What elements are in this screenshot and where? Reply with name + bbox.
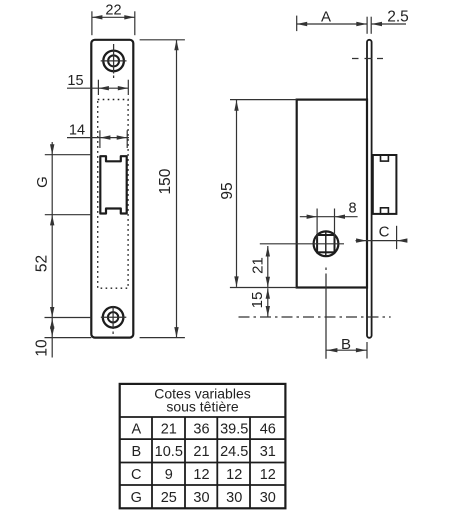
- svg-text:A: A: [131, 421, 141, 437]
- svg-text:B: B: [131, 444, 141, 460]
- latch bolt side view: [373, 155, 397, 214]
- table row G: [131, 490, 276, 506]
- svg-text:30: 30: [226, 490, 242, 506]
- top screw centerline vertical: [113, 44, 115, 78]
- bottom screw centerline vertical: [112, 306, 114, 334]
- hidden lock case dotted outline: [98, 100, 128, 289]
- dimension 95: [236, 100, 238, 287]
- svg-text:150: 150: [157, 168, 174, 194]
- lock case side view: [297, 100, 367, 288]
- svg-text:36: 36: [193, 421, 209, 437]
- svg-text:B: B: [341, 336, 351, 353]
- svg-text:G: G: [34, 176, 51, 188]
- svg-text:30: 30: [193, 490, 209, 506]
- bottom screw centerline horizontal: [101, 316, 127, 318]
- table row A: [131, 421, 275, 437]
- svg-text:12: 12: [193, 467, 209, 483]
- cylinder axis dash-dot: [239, 316, 391, 318]
- svg-text:2.5: 2.5: [387, 8, 409, 25]
- top screw hole outer: [103, 51, 124, 72]
- top screw hole inner: [108, 55, 119, 66]
- svg-text:25: 25: [161, 490, 177, 506]
- dimension C: [356, 226, 406, 249]
- svg-text:52: 52: [34, 255, 51, 272]
- bottom screw extension line: [45, 317, 92, 319]
- svg-text:22: 22: [105, 2, 121, 18]
- dimension 14: [67, 130, 129, 148]
- svg-text:8: 8: [348, 201, 356, 217]
- spindle vertical centerline below: [325, 268, 327, 359]
- case top extension line: [230, 99, 297, 101]
- svg-text:sous têtière: sous têtière: [166, 399, 239, 415]
- spindle square cross vertical: [325, 231, 327, 257]
- svg-text:10.5: 10.5: [155, 444, 183, 460]
- bottom screw hole outer: [103, 307, 124, 328]
- left dimension chain line G/52/10: [51, 142, 53, 358]
- dimension B: [326, 342, 367, 359]
- svg-text:24.5: 24.5: [220, 444, 248, 460]
- dimension 15 left view: [67, 80, 128, 95]
- G arrows (outside): [50, 144, 54, 155]
- spindle hole circle: [314, 231, 339, 256]
- 10 arrows: [50, 318, 54, 329]
- bottom screw hole inner: [108, 312, 118, 322]
- latch tab top: [381, 155, 389, 161]
- svg-text:12: 12: [260, 467, 276, 483]
- table vertical lines: [152, 417, 250, 508]
- svg-text:14: 14: [69, 123, 85, 139]
- dimension 21: [267, 246, 269, 287]
- dimension 150: [140, 40, 185, 338]
- svg-text:46: 46: [260, 421, 276, 437]
- svg-text:15: 15: [67, 73, 83, 89]
- table row C: [131, 467, 276, 483]
- dimension 8: [300, 209, 358, 239]
- dimension 15 right view: [267, 288, 269, 316]
- spindle square: [317, 235, 334, 252]
- dimension A: [297, 16, 406, 34]
- svg-text:A: A: [321, 8, 331, 25]
- G extension lines: [45, 155, 92, 215]
- top screw axis dash-dot: [352, 58, 383, 60]
- spindle horizontal centerline: [260, 243, 344, 245]
- svg-text:C: C: [379, 224, 390, 241]
- svg-text:12: 12: [226, 467, 242, 483]
- latch cutout: [100, 156, 126, 213]
- case bottom extension line: [230, 287, 297, 289]
- dimension 22: [92, 11, 135, 35]
- top screw centerline horizontal: [101, 60, 127, 62]
- svg-text:31: 31: [260, 444, 276, 460]
- svg-text:21: 21: [161, 421, 177, 437]
- svg-text:21: 21: [193, 444, 209, 460]
- svg-text:95: 95: [219, 182, 236, 199]
- faceplate side view: [367, 40, 372, 338]
- plate bottom extension line left: [45, 337, 92, 339]
- svg-text:9: 9: [165, 467, 173, 483]
- latch tab bottom: [381, 208, 389, 214]
- table outer border: [120, 384, 286, 508]
- svg-text:G: G: [131, 490, 142, 506]
- 52 bottom arrow: [50, 307, 54, 318]
- faceplate front view outline: [91, 40, 133, 338]
- table row B: [131, 444, 275, 460]
- svg-text:C: C: [131, 467, 141, 483]
- svg-text:10: 10: [34, 339, 51, 357]
- svg-text:39.5: 39.5: [220, 421, 248, 437]
- table horizontal lines: [120, 417, 286, 485]
- svg-text:15: 15: [249, 292, 266, 309]
- svg-text:30: 30: [260, 490, 276, 506]
- svg-text:21: 21: [250, 257, 267, 274]
